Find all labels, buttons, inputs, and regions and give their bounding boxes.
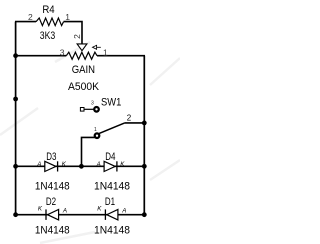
wire: D2/D1 row bbox=[16, 214, 145, 216]
svg-text:3: 3 bbox=[60, 47, 65, 57]
svg-text:1N4148: 1N4148 bbox=[35, 225, 70, 237]
svg-text:1N4148: 1N4148 bbox=[94, 181, 130, 193]
diode D2 bbox=[45, 209, 47, 220]
wire: top segment left of R4 bbox=[15, 21, 36, 23]
switch SW1 pin 3 circle bbox=[94, 107, 99, 112]
potentiometer GAIN wiper arrow bbox=[77, 44, 87, 51]
wire: left rail bbox=[15, 22, 17, 215]
svg-text:1: 1 bbox=[65, 12, 70, 22]
svg-text:1N4148: 1N4148 bbox=[35, 181, 70, 193]
svg-text:1N4148: 1N4148 bbox=[94, 225, 130, 237]
svg-text:D1: D1 bbox=[105, 196, 115, 208]
svg-text:A500K: A500K bbox=[68, 81, 100, 93]
wire: right rail bbox=[143, 56, 145, 215]
diode D3 bbox=[45, 161, 56, 171]
svg-text:3: 3 bbox=[91, 101, 94, 107]
wire: GAIN pin 1 to right rail corner bbox=[97, 55, 145, 57]
svg-text:1: 1 bbox=[103, 47, 108, 57]
junction dot left rail at GAIN bbox=[13, 53, 18, 58]
svg-text:A: A bbox=[36, 161, 41, 168]
svg-text:2: 2 bbox=[28, 12, 33, 22]
svg-text:D4: D4 bbox=[105, 151, 115, 163]
resistor R4 bbox=[36, 18, 64, 26]
svg-text:2: 2 bbox=[127, 114, 132, 123]
switch SW1 pin 1 circle bbox=[95, 133, 100, 138]
svg-text:D2: D2 bbox=[46, 196, 56, 208]
wire: square to pin 3 circle bbox=[84, 108, 94, 110]
wire: SW1 pin1 to D3/D4 junction bbox=[82, 137, 95, 166]
wire: D3/D4 row bbox=[16, 165, 145, 167]
potentiometer GAIN body bbox=[66, 52, 97, 59]
junction dot mid D3/D4 row bbox=[79, 164, 84, 169]
svg-text:1: 1 bbox=[94, 127, 97, 133]
svg-text:A: A bbox=[121, 208, 126, 215]
svg-text:A: A bbox=[96, 161, 101, 168]
wire: lever to right rail bbox=[125, 122, 144, 124]
switch lever bbox=[99, 123, 125, 134]
svg-text:R4: R4 bbox=[42, 4, 54, 16]
svg-text:2: 2 bbox=[72, 34, 82, 39]
junction dot left rail bottom bbox=[13, 212, 18, 217]
svg-text:GAIN: GAIN bbox=[72, 64, 95, 76]
junction dot right rail D4 row bbox=[142, 164, 147, 169]
junction dot left rail D3 row bbox=[13, 164, 18, 169]
junction dot switch to right rail bbox=[142, 121, 147, 126]
svg-text:SW1: SW1 bbox=[101, 97, 121, 109]
watermark streaks bbox=[0, 42, 180, 243]
diode D4 bbox=[104, 161, 115, 171]
diode D1 bbox=[104, 209, 106, 220]
adjustment arrow glyph bbox=[93, 45, 97, 49]
junction dot right rail bottom bbox=[142, 212, 147, 217]
junction dot on left rail (net stub) bbox=[13, 97, 18, 102]
switch SW1 terminal square bbox=[80, 108, 84, 112]
svg-text:D3: D3 bbox=[46, 151, 56, 163]
svg-text:3K3: 3K3 bbox=[40, 30, 56, 42]
svg-text:A: A bbox=[62, 208, 67, 215]
wire: left rail to GAIN pin 3 bbox=[16, 55, 67, 57]
wire: R4 to corner, down to wiper bbox=[64, 22, 83, 44]
